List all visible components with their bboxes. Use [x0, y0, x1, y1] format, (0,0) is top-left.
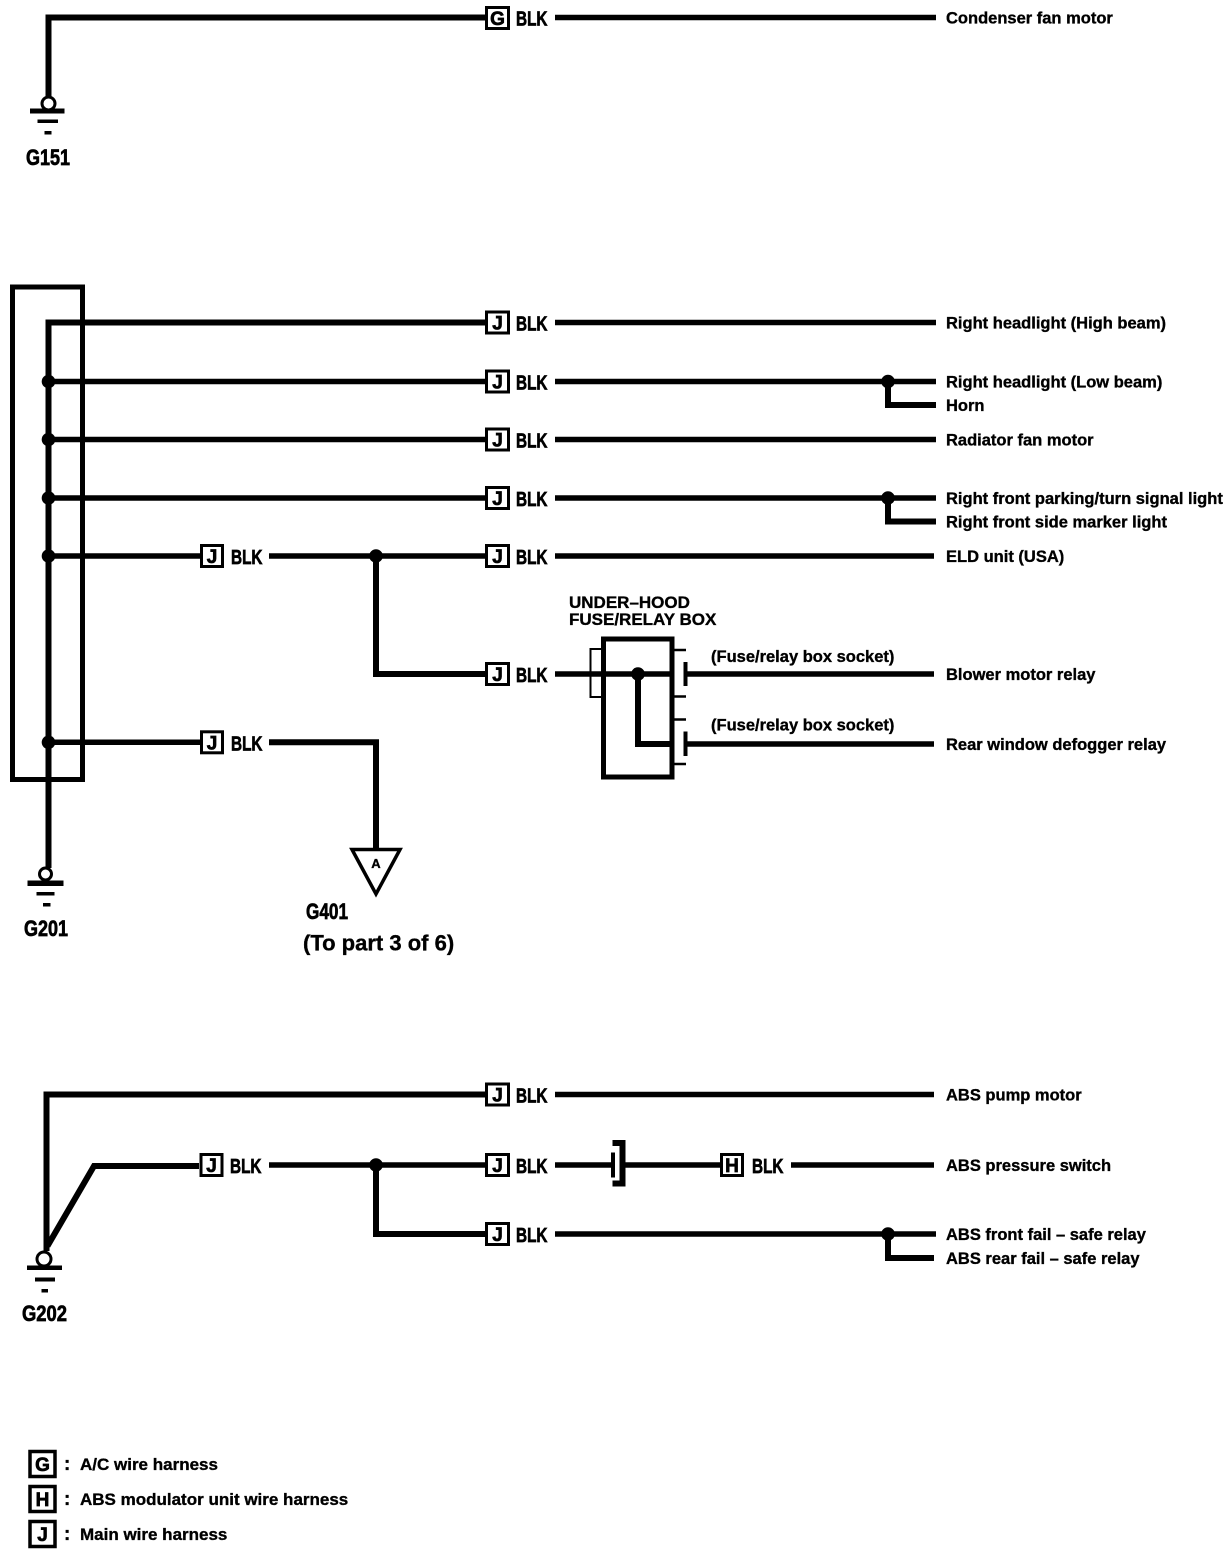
wire to condenser fan motor — [555, 15, 936, 21]
svg-text:J: J — [492, 489, 503, 510]
wire to radiator fan motor — [555, 437, 936, 443]
svg-text:G: G — [35, 1455, 50, 1476]
connector J pressure row first — [201, 1155, 222, 1178]
svg-text:A: A — [371, 856, 381, 871]
svg-text:ABS pump motor: ABS pump motor — [946, 1087, 1082, 1105]
wire into fuse/relay box — [555, 671, 674, 677]
wire to ABS pressure switch — [791, 1162, 934, 1168]
svg-text:BLK: BLK — [516, 1225, 548, 1247]
wire to ELD unit — [555, 553, 934, 559]
socket tick 4 — [674, 763, 686, 766]
svg-text:BLK: BLK — [516, 9, 548, 31]
socket terminal bar blower — [684, 662, 688, 686]
svg-text:BLK: BLK — [516, 373, 548, 395]
svg-text:BLK: BLK — [516, 431, 548, 453]
connector J fail-safe row — [487, 1224, 509, 1247]
socket tick 1 — [674, 649, 686, 652]
connector block outline — [13, 287, 83, 780]
in-line connector male bar — [611, 1153, 615, 1178]
svg-text:G151: G151 — [26, 145, 70, 170]
connector J pressure row second — [487, 1155, 509, 1178]
svg-text:BLK: BLK — [516, 665, 548, 687]
connector J row1 — [487, 312, 509, 335]
wire to blower motor relay — [688, 671, 935, 677]
wire branch junction to blower relay row — [376, 556, 485, 674]
ground G201 — [28, 868, 64, 907]
svg-text::: : — [64, 1524, 70, 1545]
svg-text:Radiator fan motor: Radiator fan motor — [946, 432, 1094, 450]
svg-text:Right headlight (Low beam): Right headlight (Low beam) — [946, 374, 1162, 392]
wire to connector H — [626, 1162, 721, 1168]
svg-text:J: J — [207, 733, 218, 754]
svg-text:Main wire harness: Main wire harness — [80, 1525, 227, 1544]
ground G151 — [30, 97, 65, 135]
junction to fail-safe branch — [369, 1158, 383, 1172]
under-hood fuse/relay box outline — [604, 639, 673, 777]
wire branch to fail-safe relays — [376, 1165, 485, 1234]
socket tick 3 — [674, 718, 686, 721]
connector H (ABS modulator unit wire harness) — [722, 1155, 743, 1178]
wire branch to rear fail-safe relay — [888, 1234, 934, 1258]
svg-text:Right front parking/turn signa: Right front parking/turn signal light — [946, 490, 1223, 508]
connector J row4 — [487, 488, 509, 511]
junction to side marker branch — [881, 491, 895, 505]
svg-text:BLK: BLK — [231, 733, 263, 755]
wire row6 left — [49, 740, 202, 746]
label UNDER-HOOD FUSE/RELAY BOX — [569, 593, 717, 629]
svg-text:ABS rear fail – safe relay: ABS rear fail – safe relay — [946, 1250, 1140, 1268]
junction inside fuse/relay box — [631, 667, 645, 681]
svg-text:(Fuse/relay box socket): (Fuse/relay box socket) — [711, 648, 894, 666]
junction bus row5 — [42, 549, 56, 563]
svg-text:BLK: BLK — [516, 314, 548, 336]
svg-text:G202: G202 — [22, 1301, 67, 1326]
svg-text:J: J — [206, 1156, 217, 1177]
svg-text:J: J — [492, 1086, 503, 1107]
svg-text:ABS pressure switch: ABS pressure switch — [946, 1157, 1111, 1175]
wire to right headlight high beam — [555, 320, 936, 326]
svg-text:BLK: BLK — [516, 547, 548, 569]
svg-text:J: J — [492, 1225, 503, 1246]
junction bus row6 — [42, 736, 56, 750]
svg-text:J: J — [492, 431, 503, 452]
ground bus wire to G201 — [49, 323, 486, 869]
svg-text:ABS front fail – safe relay: ABS front fail – safe relay — [946, 1226, 1147, 1244]
svg-text:G: G — [490, 9, 505, 30]
svg-text:A/C wire harness: A/C wire harness — [80, 1455, 218, 1474]
legend connector J — [30, 1522, 55, 1547]
connector J row6 — [202, 732, 223, 755]
junction to blower relay branch — [369, 549, 383, 563]
svg-text:G401: G401 — [306, 899, 348, 924]
wire to rear window defogger relay — [688, 741, 935, 747]
legend connector H — [30, 1487, 55, 1512]
junction to rear fail-safe branch — [881, 1227, 895, 1241]
svg-text:Right front side marker light: Right front side marker light — [946, 514, 1167, 532]
svg-text:Right headlight (High beam): Right headlight (High beam) — [946, 315, 1166, 333]
wire row2 left — [49, 379, 486, 385]
svg-text:ELD unit (USA): ELD unit (USA) — [946, 548, 1064, 566]
connector J row5 second — [487, 546, 509, 569]
connector J pump row — [487, 1084, 509, 1107]
connector J row2 — [487, 371, 509, 394]
junction bus row2 — [42, 375, 56, 389]
connector G (A/C wire harness) — [487, 8, 509, 31]
svg-text:(To part 3 of 6): (To part 3 of 6) — [303, 931, 454, 956]
connector J row3 — [487, 429, 509, 452]
wire row5 left — [49, 553, 202, 559]
socket tick 2 — [674, 695, 686, 698]
svg-text:BLK: BLK — [516, 1156, 548, 1178]
svg-text:Blower motor relay: Blower motor relay — [946, 666, 1096, 684]
svg-text:BLK: BLK — [230, 1156, 262, 1178]
svg-text:(Fuse/relay box socket): (Fuse/relay box socket) — [711, 717, 894, 735]
connector J blower row — [487, 664, 509, 687]
svg-text:J: J — [207, 547, 218, 568]
svg-text:H: H — [725, 1156, 739, 1177]
svg-text:BLK: BLK — [516, 1086, 548, 1108]
svg-text:H: H — [36, 1490, 50, 1511]
junction to horn branch — [881, 375, 895, 389]
svg-text:BLK: BLK — [231, 547, 263, 569]
wire to parking/turn signal light — [555, 495, 936, 501]
svg-text:Condenser fan motor: Condenser fan motor — [946, 10, 1113, 28]
wire to ABS front fail-safe relay — [555, 1231, 936, 1237]
svg-text:G201: G201 — [24, 916, 68, 941]
connector A triangle (to part 3) — [352, 850, 400, 895]
junction bus row3 — [42, 433, 56, 447]
svg-text:J: J — [492, 547, 503, 568]
svg-text:J: J — [37, 1525, 48, 1546]
socket terminal bar defogger — [684, 732, 688, 757]
svg-text:J: J — [492, 314, 503, 335]
svg-text:BLK: BLK — [752, 1156, 784, 1178]
wire row4 left — [49, 495, 486, 501]
wire from ground G202 up to ABS pump motor row — [47, 1095, 486, 1252]
svg-text:Horn: Horn — [946, 397, 985, 415]
internal wire to defogger relay socket — [638, 674, 674, 744]
wire row3 left — [49, 437, 486, 443]
in-line connector female bracket — [613, 1143, 623, 1184]
wire to right headlight low beam — [555, 379, 936, 385]
wire branch to horn — [888, 382, 936, 406]
svg-text:J: J — [492, 1156, 503, 1177]
connector J row5 first — [202, 546, 223, 569]
svg-text:Rear window defogger relay: Rear window defogger relay — [946, 736, 1167, 754]
wire row5 middle — [269, 553, 485, 559]
wire to ground G401 — [269, 742, 376, 848]
svg-text::: : — [64, 1489, 70, 1510]
svg-text:BLK: BLK — [516, 489, 548, 511]
svg-text:J: J — [492, 373, 503, 394]
legend connector G — [30, 1452, 55, 1477]
wire to in-line connector — [555, 1162, 611, 1168]
ground G202 — [27, 1252, 62, 1293]
wire to ABS pump motor — [555, 1092, 934, 1098]
fuse/relay box left tab — [591, 649, 603, 697]
junction bus row4 — [42, 491, 56, 505]
wire diagonal from G202 to pressure switch row — [48, 1166, 200, 1246]
wire pressure row middle — [269, 1162, 485, 1168]
svg-text::: : — [64, 1454, 70, 1475]
svg-text:FUSE/RELAY BOX: FUSE/RELAY BOX — [569, 610, 717, 629]
wire from ground G151 up and right to connector G — [49, 18, 486, 97]
svg-text:ABS modulator unit wire harnes: ABS modulator unit wire harness — [80, 1490, 348, 1509]
wire branch to side marker light — [888, 498, 936, 522]
svg-text:J: J — [492, 665, 503, 686]
